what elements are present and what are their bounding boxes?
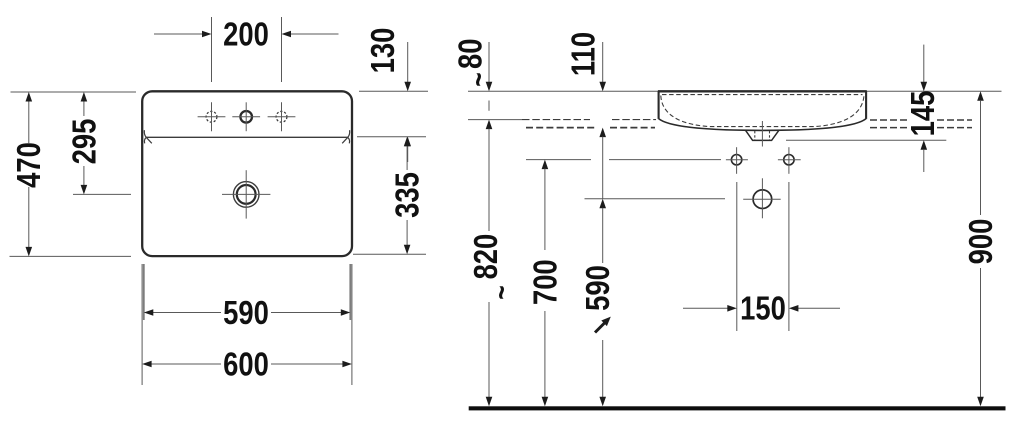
rim corner curl right <box>342 130 349 143</box>
svg-text:130: 130 <box>366 28 402 74</box>
dim 110 lower arrow and link <box>599 128 606 138</box>
svg-text:470: 470 <box>12 142 48 188</box>
faucet hole right (dashed) with crosshair <box>276 111 287 122</box>
svg-text:900: 900 <box>964 219 1000 265</box>
dim 130 line lower <box>407 146 409 162</box>
svg-text:150: 150 <box>740 291 786 327</box>
dim 295 extension line bottom <box>73 193 131 195</box>
dim 295 line <box>83 101 85 117</box>
dim 150 extension line right <box>788 182 790 331</box>
svg-text:820: 820 <box>469 234 505 280</box>
basin inner bowl dashed curve <box>661 96 864 127</box>
dim 200 extension line left <box>211 17 213 82</box>
basin front right edge <box>865 91 867 119</box>
overflow level dashed left <box>526 127 595 129</box>
fixing hole level line <box>526 159 591 161</box>
svg-text:590: 590 <box>581 265 617 311</box>
dim 110 line upper <box>602 42 604 82</box>
dim 590r leader arrow <box>595 322 606 333</box>
svg-text:110: 110 <box>566 32 602 76</box>
drain trap dashed verticals <box>754 131 756 140</box>
svg-text:80: 80 <box>453 39 489 69</box>
drain trap outline <box>746 131 779 141</box>
dim 200 line left <box>154 33 203 35</box>
basin front bottom curve <box>659 119 867 131</box>
faucet hole center (solid) with crosshair <box>240 111 252 123</box>
svg-text:600: 600 <box>223 347 269 383</box>
dim 590 extension line left <box>143 264 145 320</box>
fixing hole right <box>784 155 794 165</box>
basin inner rim dashed top <box>662 94 863 96</box>
dim 820 line <box>488 101 490 111</box>
basin rim line <box>146 136 348 138</box>
rim corner curl left <box>144 130 151 143</box>
drain level line left <box>585 198 726 200</box>
dim 590 extension line right <box>349 264 351 320</box>
svg-text:200: 200 <box>223 17 269 53</box>
dim 470 line <box>28 101 30 144</box>
dim 80 line <box>488 42 490 82</box>
dim 900 line <box>977 91 984 101</box>
rim level line dashed right <box>870 119 909 121</box>
svg-text:~: ~ <box>484 285 518 299</box>
dim 335 line <box>406 146 408 171</box>
dim 145 line upper <box>923 45 925 83</box>
dim 700 line <box>542 160 549 170</box>
dim 130 extension line upper <box>359 90 428 92</box>
dim 600 extension line right <box>351 264 353 385</box>
floor line <box>469 406 1006 410</box>
svg-text:335: 335 <box>390 172 426 218</box>
basin front top edge <box>658 90 867 92</box>
svg-text:590: 590 <box>223 296 269 332</box>
rim level line solid left <box>468 119 522 121</box>
dim 335 extension line bottom <box>353 253 426 255</box>
dim 130 extension line lower <box>357 136 426 138</box>
svg-text:~: ~ <box>461 72 495 86</box>
dim 600 line <box>152 363 222 365</box>
dim 600 extension line left <box>141 264 143 385</box>
dim 150 line right <box>798 307 840 309</box>
dim 590 line <box>153 312 221 314</box>
svg-text:700: 700 <box>528 259 564 305</box>
fixing hole left <box>731 155 741 165</box>
dim 145 line lower <box>921 140 928 150</box>
svg-text:145: 145 <box>906 91 942 137</box>
dim 150 line left <box>683 307 728 309</box>
drain hole plan (two circles + crosshair) <box>233 182 259 208</box>
drain hole front <box>753 190 772 209</box>
dim 590r line <box>599 199 606 209</box>
centerline through trap <box>761 121 763 147</box>
dim 470 extension line bottom <box>10 255 132 257</box>
overflow level dashed right <box>870 127 909 129</box>
dim 130 line upper <box>407 42 409 82</box>
dim 200 extension line right <box>281 17 283 82</box>
dim 470 extension line top <box>11 91 137 93</box>
svg-text:295: 295 <box>67 119 103 165</box>
outlet level line right <box>786 139 946 141</box>
rim level line dashed left <box>522 119 590 121</box>
dim 150 extension line left <box>736 182 738 331</box>
wall top reference line <box>468 90 1002 92</box>
dim 200 line right <box>291 33 339 35</box>
washbasin plan view outline <box>142 91 352 256</box>
basin front left edge <box>658 91 660 119</box>
faucet hole left (dashed) with crosshair <box>206 111 217 122</box>
